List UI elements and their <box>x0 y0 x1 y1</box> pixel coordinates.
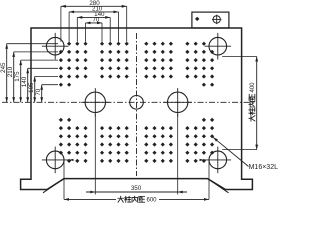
left dimension 210 <box>13 52 15 102</box>
right ejector circle <box>168 92 188 112</box>
left ejector circle <box>85 92 105 112</box>
top dimension 210 <box>69 11 118 13</box>
top dimension 70 <box>86 22 103 24</box>
left dimension 140 <box>27 68 29 102</box>
top box (nozzle plate) <box>192 12 229 28</box>
right dimension tie-bar vertical distance 400 <box>256 57 258 150</box>
svg-text:400: 400 <box>250 82 256 93</box>
svg-text:245: 245 <box>0 62 7 73</box>
top dimension 140 <box>77 16 110 18</box>
right base diagonal <box>208 179 229 193</box>
left dimension 105 <box>34 77 36 103</box>
horizontal centerline <box>2 101 254 103</box>
center locating circle <box>130 96 144 110</box>
left dimension 175 <box>20 60 22 102</box>
svg-text:175: 175 <box>14 71 21 82</box>
top box locating circle <box>213 16 220 23</box>
tie-bar hole top-right <box>209 37 227 55</box>
tie-bar hole bottom-right <box>209 151 227 169</box>
left dimension 245 <box>6 44 8 103</box>
svg-text:105: 105 <box>28 82 35 93</box>
tie-bar hole bottom-left <box>46 151 64 169</box>
left base diagonal <box>43 179 64 193</box>
svg-text:210: 210 <box>7 66 14 77</box>
top box diamond hole <box>195 17 199 21</box>
svg-text:600: 600 <box>147 198 158 204</box>
thread hole label M16x32L <box>213 137 248 166</box>
svg-text:140: 140 <box>21 76 28 87</box>
bottom dimension 350 <box>94 114 96 195</box>
top dimension 280 <box>61 5 127 7</box>
platen plate outline <box>21 28 253 190</box>
vertical centerline <box>136 33 138 176</box>
bottom dimension tie-bar horizontal distance 600 <box>63 160 65 200</box>
svg-text:350: 350 <box>131 185 142 192</box>
left dimension 70 <box>41 85 43 103</box>
svg-text:70: 70 <box>35 88 42 95</box>
tie-bar hole top-left <box>46 37 64 55</box>
svg-text:70: 70 <box>92 17 99 24</box>
bolt hole grid <box>59 42 214 163</box>
svg-text:M16×32L: M16×32L <box>249 164 278 171</box>
